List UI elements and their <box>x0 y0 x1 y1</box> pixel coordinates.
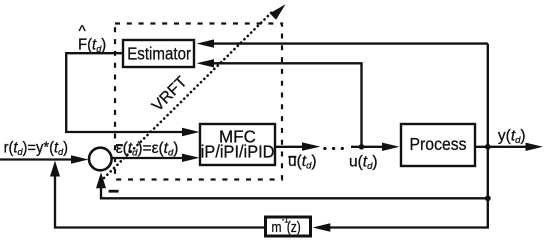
label r(td)=y*(td) <box>4 139 68 157</box>
svg-text:Process: Process <box>410 134 467 154</box>
svg-text:y(td): y(td) <box>498 127 526 146</box>
dashed VRFT region box <box>115 24 282 180</box>
node u junction dot <box>359 144 365 150</box>
svg-text:iP/iPI/iPID: iP/iPI/iPID <box>201 142 275 162</box>
wire m-1(z) output to reference line <box>50 161 264 228</box>
wire Estimator output to MFC upper input <box>66 53 199 136</box>
svg-text:u(td): u(td) <box>349 154 378 173</box>
svg-text:(z): (z) <box>287 219 301 236</box>
wire summer to MFC (epsilon) <box>113 154 200 162</box>
wire MFC output (u_bar) <box>276 142 321 150</box>
label minus sign <box>109 190 119 193</box>
wire u feedback to Estimator <box>197 59 362 147</box>
block Estimator <box>123 40 194 67</box>
label u_bar(td) <box>288 153 317 172</box>
node y junction dot <box>485 144 491 150</box>
wire r input to summer <box>0 155 89 163</box>
summing junction <box>89 148 112 171</box>
block MFC <box>200 124 275 165</box>
node feedback junction dot <box>485 195 491 201</box>
ellipsis dots <box>323 147 344 150</box>
label eps_bar(td)=eps(td) <box>116 140 179 159</box>
VRFT dotted arrow <box>104 4 286 178</box>
wire y to Estimator upper input <box>197 39 488 47</box>
wire minus feedback into summer <box>96 172 488 198</box>
svg-text:Estimator: Estimator <box>127 45 191 64</box>
svg-text:m: m <box>272 219 282 236</box>
label F_hat(td) <box>78 23 106 54</box>
block Process <box>401 124 475 166</box>
svg-text:u(td): u(td) <box>288 153 317 172</box>
block m-1(z) <box>266 217 311 236</box>
svg-text:^: ^ <box>79 23 87 40</box>
wire y feedback vertical and to m-1(z) <box>313 44 488 232</box>
wire Process output y <box>475 143 543 151</box>
wire u to Process <box>351 143 400 151</box>
